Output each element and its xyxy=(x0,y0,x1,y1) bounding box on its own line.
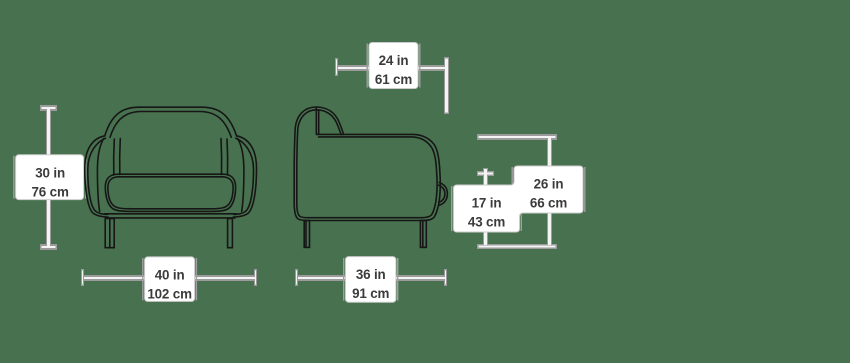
svg-text:91 cm: 91 cm xyxy=(352,286,389,301)
svg-text:30 in: 30 in xyxy=(35,165,65,180)
svg-text:76 cm: 76 cm xyxy=(31,184,68,199)
svg-text:40 in: 40 in xyxy=(155,268,185,283)
svg-text:26 in: 26 in xyxy=(534,177,564,192)
svg-text:102 cm: 102 cm xyxy=(147,287,192,302)
svg-text:36 in: 36 in xyxy=(356,267,386,282)
svg-text:43 cm: 43 cm xyxy=(468,215,505,230)
svg-text:17 in: 17 in xyxy=(472,196,502,211)
svg-text:66 cm: 66 cm xyxy=(530,196,567,211)
svg-text:61 cm: 61 cm xyxy=(375,72,412,87)
svg-text:24 in: 24 in xyxy=(379,53,409,68)
